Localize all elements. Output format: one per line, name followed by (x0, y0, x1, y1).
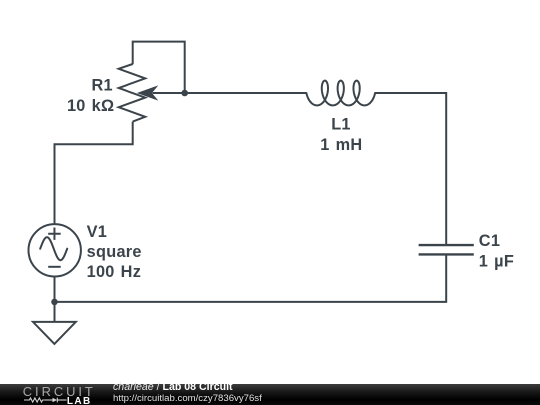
wire R1 bottom terminal down-left toward V1 (55, 122, 133, 225)
V1 sine glyph (40, 237, 67, 260)
inductor L1 coil (306, 81, 375, 106)
svg-text:1 µF: 1 µF (479, 253, 514, 271)
logo diode (53, 398, 58, 403)
svg-text:square: square (87, 243, 142, 261)
credit text (113, 382, 262, 404)
svg-text:V1: V1 (87, 223, 108, 241)
wire C1 bottom to bottom rail (55, 254, 447, 301)
voltage source V1 circle (29, 224, 81, 276)
V1 minus sign (48, 266, 61, 268)
logo resistor squiggle (24, 398, 46, 402)
ground symbol (33, 322, 76, 344)
svg-text:C1: C1 (479, 232, 500, 250)
wire L1 to top-right corner down to C1 (375, 93, 446, 244)
svg-text:100 Hz: 100 Hz (87, 263, 142, 281)
svg-text:1 mH: 1 mH (320, 136, 362, 154)
wire top loop from R1 top terminal to wiper node (133, 42, 185, 93)
wire wiper node to inductor L1 (153, 92, 307, 94)
CircuitLab logo (17, 384, 101, 405)
svg-text:L1: L1 (331, 115, 351, 133)
resistor R1 (potentiometer body zigzag) (119, 64, 146, 122)
ground node junction dot (51, 299, 58, 306)
V1 plus sign (48, 228, 61, 240)
capacitor C1 bottom plate (419, 253, 474, 255)
svg-text:R1: R1 (91, 77, 112, 95)
wire V1 bottom terminal to ground (54, 276, 56, 322)
svg-text:LAB: LAB (67, 396, 92, 405)
potentiometer wiper arrow (138, 86, 157, 99)
wire V1 top terminal (54, 144, 56, 224)
capacitor C1 top plate (419, 244, 474, 246)
footer bar (0, 384, 540, 405)
node A junction dot (wiper node) (181, 90, 188, 97)
svg-text:10 kΩ: 10 kΩ (67, 97, 114, 115)
